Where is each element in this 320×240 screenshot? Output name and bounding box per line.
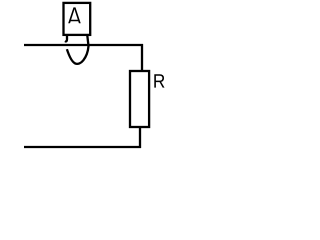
label A [68, 7, 81, 23]
wire: right vertical from top corner to resistor [141, 44, 143, 72]
resistor R body [130, 71, 149, 127]
label R [154, 74, 164, 87]
wire: vertical from resistor bottom [139, 126, 141, 148]
ammeter U1 box A [64, 3, 91, 35]
clamp right jaw and loop around wire [67, 35, 89, 64]
clamp left jaw (lead from box, hook above wire) [65, 35, 67, 42]
wire: bottom conductor [24, 146, 141, 148]
wire: top conductor [24, 44, 143, 46]
